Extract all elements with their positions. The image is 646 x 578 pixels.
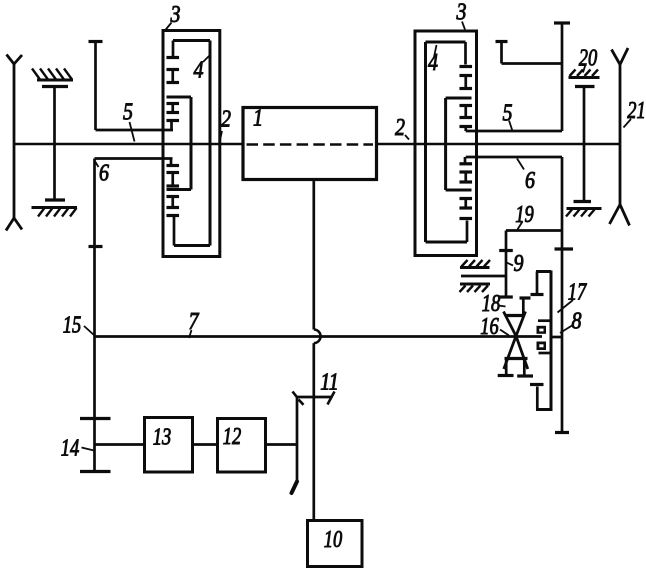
svg-text:20: 20 <box>579 46 598 72</box>
svg-text:7: 7 <box>189 309 200 335</box>
svg-text:9: 9 <box>514 251 524 277</box>
svg-text:4: 4 <box>194 58 204 84</box>
svg-text:14: 14 <box>61 436 80 462</box>
svg-text:15: 15 <box>63 313 82 339</box>
svg-text:19: 19 <box>515 202 534 228</box>
svg-text:11: 11 <box>320 370 339 396</box>
svg-text:16: 16 <box>480 314 499 340</box>
svg-text:6: 6 <box>525 168 535 194</box>
svg-text:12: 12 <box>223 424 242 450</box>
svg-text:5: 5 <box>503 101 513 127</box>
svg-text:8: 8 <box>572 309 582 335</box>
svg-text:10: 10 <box>324 527 343 553</box>
svg-text:3: 3 <box>456 0 467 26</box>
svg-text:2: 2 <box>395 115 405 141</box>
svg-text:4: 4 <box>428 50 438 76</box>
svg-text:13: 13 <box>153 425 172 451</box>
svg-text:6: 6 <box>99 161 109 187</box>
svg-text:2: 2 <box>221 107 231 133</box>
svg-text:5: 5 <box>123 100 133 126</box>
svg-text:1: 1 <box>253 106 263 132</box>
